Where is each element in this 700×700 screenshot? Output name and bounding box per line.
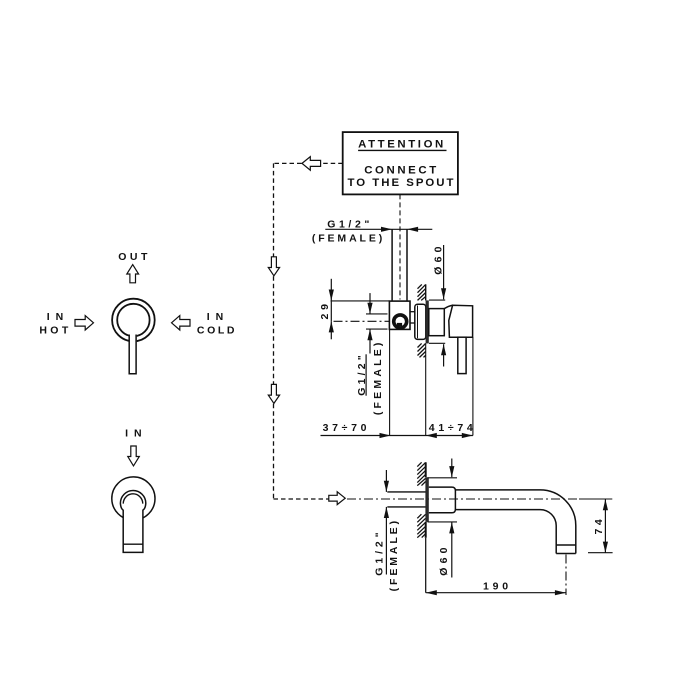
svg-text:(FEMALE): (FEMALE) [388,518,400,591]
side view spout: dimension 190 [426,581,566,596]
attention box message text [348,164,456,189]
svg-text:G1/2": G1/2" [327,218,373,230]
svg-text:TO THE SPOUT: TO THE SPOUT [348,177,456,189]
hollow arrow left (at attention box) [302,157,321,171]
side view mixer: dimension 29 arrow lines [329,279,390,340]
side view spout: wall line and hatching [417,462,425,592]
side view mixer: dimension 29 label [319,300,331,319]
side view mixer: handle body [444,305,472,337]
svg-text:G1/2": G1/2" [373,528,385,575]
side view mixer: G1/2 (FEMALE) rotated label [356,339,384,415]
side view mixer: dimension Ø60 label [432,242,444,274]
dashed connection path: box to spout view [274,163,343,499]
front view spout: hollow arrow down [128,446,140,466]
svg-text:190: 190 [483,581,512,593]
svg-text:OUT: OUT [118,251,151,263]
front view mixer: body ring [112,299,155,342]
side view spout: inlet pipe [387,492,425,507]
side view spout: tube with bend [455,490,575,554]
front view spout: IN label [125,428,148,440]
svg-text:37÷70: 37÷70 [323,422,371,434]
side view mixer: dimension 37÷70 and 41÷74 [321,422,477,438]
svg-text:IN: IN [125,428,148,440]
svg-text:IN: IN [47,311,70,323]
front view mixer: hollow arrow left (cold) [172,316,191,330]
side view spout: Ø60 extension lines [428,478,458,522]
side view mixer: G1/2 (FEMALE) top label [312,218,385,244]
attention box title text [358,138,446,150]
svg-text:CONNECT: CONNECT [364,164,439,176]
side view spout: dimension 74 [588,499,613,553]
front view mixer: IN COLD label [197,311,237,337]
front view mixer: OUT label [118,251,151,263]
front view spout: wall flange circle [112,477,155,520]
side view mixer: extension lines down [390,329,473,435]
side view spout: Ø60 dimension arrows [449,459,454,578]
side view mixer: wall hatching lower [418,343,426,357]
side view mixer: valve body [389,301,410,329]
side view spout: G1/2 (FEMALE) rotated label [373,518,400,591]
hollow arrow down 1 [268,257,279,276]
svg-text:HOT: HOT [39,325,71,337]
side view mixer: dashed centerline of riser [399,194,401,299]
side view spout: tip centerline dash-dot [565,555,567,596]
side view mixer: riser pipe G1/2 [392,229,407,301]
svg-text:(FEMALE): (FEMALE) [372,339,384,415]
side view spout: Ø60 rotated label [438,543,450,575]
svg-text:(FEMALE): (FEMALE) [312,233,385,245]
side view mixer: wall plate (dark) [426,300,429,343]
svg-text:IN: IN [207,311,230,323]
front view spout: tube with rounded cap [120,491,145,553]
side view mixer: handle lever rod [458,337,466,373]
front view mixer: handle lever [129,330,137,374]
side view mixer: stub to escutcheon [410,312,415,323]
side view mixer: riser width dimension line with arrows [325,227,432,232]
svg-text:29: 29 [319,300,331,319]
front view mixer: IN HOT label [39,311,71,337]
side view mixer: wall hatching upper [418,284,426,300]
svg-text:Ø60: Ø60 [438,543,450,575]
side view spout: flange body [429,487,456,513]
side view mixer: horizontal centerline dash-dot [334,320,390,322]
svg-text:41÷74: 41÷74 [429,422,477,434]
svg-text:Ø60: Ø60 [432,242,444,274]
side view mixer: inlet port (black ring) [394,315,407,328]
front view mixer: hollow arrow up [127,265,139,283]
side view spout: centerline dash-dot [347,498,612,500]
attention box [343,132,458,194]
side view mixer: escutcheon cover [415,304,426,339]
side view mixer: lower G1/2 port dimension arrows [366,293,388,353]
side view spout: G1/2 dimension arrows [384,470,389,575]
side view mixer: dimension Ø60 arrow lines [429,245,446,367]
hollow arrow down 2 [268,384,279,403]
side view mixer: cartridge housing [429,309,445,336]
svg-text:COLD: COLD [197,325,237,337]
svg-text:74: 74 [593,516,605,535]
front view mixer: hollow arrow right (hot) [75,316,94,330]
hollow arrow right (to spout inlet) [329,492,345,505]
svg-text:ATTENTION: ATTENTION [358,138,446,150]
side view spout: wall plate (dark) [425,477,428,522]
